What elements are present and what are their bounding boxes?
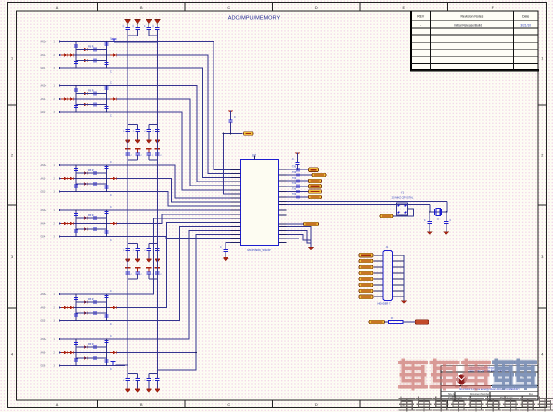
power symbol VDD top bank xyxy=(146,20,152,28)
pin left 9 xyxy=(231,201,241,203)
connector pin row 1 xyxy=(374,254,383,256)
wire pin to net label xyxy=(287,174,313,176)
svg-text:Document Number: Document Number xyxy=(470,393,490,396)
connector pin row 6 xyxy=(374,284,383,286)
wire row 3 xyxy=(61,191,125,193)
capacitor on left rail top xyxy=(74,89,78,91)
resistor R series xyxy=(81,59,87,62)
port arrow AN4+ xyxy=(59,209,62,211)
bracket wire xyxy=(149,243,158,245)
wire to cap xyxy=(429,212,431,222)
wire g4 row3 to pin xyxy=(125,237,231,239)
wire xyxy=(385,321,389,323)
wire vertical left rail xyxy=(75,339,77,366)
svg-text:GD6: GD6 xyxy=(41,366,46,368)
capacitor C bypass xyxy=(127,125,129,130)
power symbol VDD top bank xyxy=(154,20,160,28)
capacitor C bypass xyxy=(148,244,150,249)
pin right 7 xyxy=(279,201,287,203)
power symbol xyxy=(135,268,141,273)
diode D2 left on middle row xyxy=(67,351,73,354)
svg-text:TX0: TX0 xyxy=(292,194,297,196)
wire xyxy=(403,321,415,323)
resistor R series xyxy=(81,227,87,230)
bracket wire bottom xyxy=(128,159,138,161)
pin right 11 xyxy=(279,223,287,225)
watermark char small 2 xyxy=(416,397,432,411)
capacitor on right rail bottom xyxy=(104,315,108,317)
ground symbol xyxy=(135,381,140,393)
svg-text:C: C xyxy=(110,239,112,242)
junction dots xyxy=(75,338,77,340)
diode D left on middle row xyxy=(61,97,67,100)
capacitor lead xyxy=(156,30,158,36)
ground symbol xyxy=(147,132,152,144)
wire xtal left node xyxy=(429,205,431,212)
svg-text:GD5: GD5 xyxy=(41,321,46,323)
wire VDD branch down to pin xyxy=(224,134,231,194)
ground symbol osc xyxy=(443,224,449,235)
diode D left on middle row xyxy=(61,351,67,354)
svg-text:GD1: GD1 xyxy=(41,68,46,70)
wire sub-row xyxy=(76,228,107,230)
oscillator body xyxy=(397,203,408,215)
svg-text:Y1: Y1 xyxy=(401,191,405,195)
pin right 16 xyxy=(279,242,287,244)
capacitor lead xyxy=(127,30,129,36)
power symbol VDD top bank xyxy=(125,20,131,28)
watermark char small 1 xyxy=(399,397,415,411)
svg-text:AN4-: AN4- xyxy=(41,223,46,226)
svg-text:R: R xyxy=(391,317,393,320)
capacitor on right rail bottom xyxy=(104,186,108,188)
pin left 13 xyxy=(231,217,241,219)
port arrow GD5 xyxy=(59,319,62,321)
watermark char small 3 xyxy=(434,397,450,411)
port arrow AN6+ xyxy=(59,338,62,340)
net label J1 row xyxy=(359,289,373,293)
capacitor on right rail top xyxy=(104,167,108,169)
wire vertical right rail xyxy=(106,210,108,237)
capacitor C series xyxy=(91,227,99,231)
resistor R series xyxy=(81,92,87,95)
ground symbol IC right xyxy=(308,247,314,250)
svg-text:D: D xyxy=(315,403,318,407)
port arrow AN3- xyxy=(59,177,62,179)
svg-text:C: C xyxy=(110,71,112,74)
wire g4 row2 to pin xyxy=(125,214,231,223)
wire sub-row xyxy=(76,93,107,95)
svg-text:C: C xyxy=(227,6,230,10)
svg-text:3: 3 xyxy=(541,255,543,259)
ground symbol xyxy=(125,381,130,393)
power symbol AVDD at IC top xyxy=(295,153,301,163)
svg-text:B: B xyxy=(140,6,143,10)
svg-text:AN3+: AN3+ xyxy=(41,164,47,167)
ground symbol xyxy=(155,132,160,144)
watermark char red 2 xyxy=(431,360,458,390)
capacitor C bypass xyxy=(148,374,150,379)
capacitor C3 xyxy=(135,28,139,30)
filter group 1 xyxy=(41,38,126,74)
wire pin to net label xyxy=(287,196,309,198)
wire row 1 xyxy=(61,338,125,340)
port arrow AN6- xyxy=(59,351,62,353)
svg-text:TX0: TX0 xyxy=(292,183,297,185)
pin left 2 xyxy=(231,173,241,175)
svg-text:GD4: GD4 xyxy=(41,237,46,239)
wire sub-row xyxy=(76,312,107,314)
wire xtal horizontal xyxy=(430,211,446,213)
wire bus top fan 9 xyxy=(125,192,231,207)
bus entry mark xyxy=(297,168,299,171)
bus entry mark xyxy=(297,190,299,193)
net label J1 row xyxy=(359,253,373,257)
junction dots xyxy=(75,85,77,87)
pin right 8 xyxy=(279,204,287,206)
ground symbol xyxy=(135,251,140,263)
diode D2 left on middle row xyxy=(67,97,73,100)
bus entry mark xyxy=(297,173,299,176)
svg-text:AN2-: AN2- xyxy=(41,98,46,101)
wire bus top fan 2 xyxy=(125,55,231,174)
pin right 10 xyxy=(279,214,287,216)
watermark char small 4 xyxy=(451,397,467,411)
svg-text:TX0: TX0 xyxy=(292,189,297,191)
junction dots xyxy=(75,41,77,43)
capacitor C series xyxy=(91,92,99,96)
pin right 12 xyxy=(279,226,287,228)
watermark char small 7 xyxy=(503,397,519,411)
svg-text:C: C xyxy=(110,82,112,85)
capacitor C near IC xyxy=(228,120,232,122)
capacitor on right rail bottom xyxy=(104,360,108,362)
svg-text:E: E xyxy=(402,403,405,407)
port arrow AN5+ xyxy=(59,293,62,295)
svg-text:1: 1 xyxy=(11,57,13,61)
wire vertical right rail xyxy=(106,42,108,69)
bracket wire bottom xyxy=(149,278,158,280)
wire sub-row xyxy=(76,301,107,303)
capacitor on right rail top xyxy=(104,87,108,89)
port arrow AN2+ xyxy=(59,84,62,86)
ground symbol xyxy=(147,251,152,263)
capacitor C series xyxy=(91,103,99,107)
net label xyxy=(309,168,319,172)
svg-text:4: 4 xyxy=(11,353,13,357)
junction xyxy=(230,133,232,135)
svg-text:A: A xyxy=(56,403,59,407)
pin right 13 xyxy=(279,230,287,232)
wire xtal right node xyxy=(445,202,448,213)
capacitor on right rail top xyxy=(104,43,108,45)
diode D2 left on middle row xyxy=(67,306,73,309)
wire row 3 xyxy=(61,67,125,69)
pin left 7 xyxy=(231,193,241,195)
capacitor on right rail bottom xyxy=(104,231,108,233)
bus entry mark xyxy=(297,179,299,182)
capacitor C bypass xyxy=(156,374,158,379)
capacitor C at IC bottom left pin xyxy=(220,243,231,252)
net label DNC xyxy=(380,214,393,218)
wire AGND label stub xyxy=(116,364,128,366)
capacitor C bypass xyxy=(156,244,158,249)
bracket wire xyxy=(128,243,138,245)
pin left 10 xyxy=(231,205,241,207)
wire sub-row xyxy=(76,357,107,359)
diode D right on middle row xyxy=(110,351,116,354)
resistor R series xyxy=(81,300,87,303)
power symbol VDD near IC xyxy=(228,111,234,121)
wire row 1 xyxy=(61,293,125,295)
border row tick xyxy=(8,204,17,206)
wire AVDD rail vertical xyxy=(156,42,158,376)
power symbol xyxy=(135,149,141,154)
ground symbol xyxy=(155,251,160,263)
watermark char small 6 xyxy=(485,397,501,411)
pin right 6 xyxy=(279,196,287,198)
svg-text:FB R: FB R xyxy=(88,298,94,301)
svg-text:C: C xyxy=(110,290,112,293)
capacitor C series xyxy=(91,345,99,349)
filter group 5 xyxy=(41,290,126,326)
svg-text:AN6-: AN6- xyxy=(41,352,46,355)
pin right 3 xyxy=(279,180,287,182)
wire to cap xyxy=(445,212,447,222)
pin right 1 xyxy=(279,169,287,171)
port arrow GD6 xyxy=(59,364,62,366)
junction dots xyxy=(75,293,77,295)
wire pin to net label xyxy=(287,185,309,187)
port arrow GD1 xyxy=(59,67,62,69)
svg-text:FB R: FB R xyxy=(88,169,94,172)
svg-text:C: C xyxy=(110,161,112,164)
svg-text:AN5+: AN5+ xyxy=(41,293,47,296)
wire sub-row xyxy=(76,104,107,106)
resistor R series xyxy=(81,103,87,106)
capacitor C bypass2 xyxy=(126,153,130,155)
svg-text:A: A xyxy=(56,6,59,10)
svg-text:TX0: TX0 xyxy=(292,167,297,169)
filter group 4 xyxy=(41,206,126,242)
connector J1 xyxy=(359,245,407,306)
wire right pin to gnd 3 xyxy=(287,235,312,240)
svg-text:Initial Release/Build: Initial Release/Build xyxy=(454,23,482,27)
capacitor C bypass2 xyxy=(147,153,151,155)
diode D left on middle row xyxy=(61,53,67,56)
capacitor C bypass xyxy=(137,244,139,249)
wire cap to pin xyxy=(297,165,299,170)
resistor R9 xyxy=(389,321,404,324)
pin left 6 xyxy=(231,189,241,191)
pin right 14 xyxy=(279,234,287,236)
svg-text:AN5-: AN5- xyxy=(41,307,46,310)
pin right 2 xyxy=(279,174,287,176)
ground symbol osc xyxy=(427,224,433,235)
wire vertical right rail xyxy=(106,165,108,192)
filter group 6 xyxy=(41,335,126,371)
bracket wire xyxy=(128,373,138,375)
border column tick xyxy=(97,3,99,12)
wire OSC2 long xyxy=(287,204,430,206)
svg-text:C: C xyxy=(234,116,236,119)
connector pin row 3 xyxy=(374,266,383,268)
bypass capacitor cluster C xyxy=(123,374,160,393)
power label 3.3V xyxy=(112,39,117,42)
resistor R series xyxy=(81,356,87,359)
pin left 8 xyxy=(231,197,241,199)
wire row 2 xyxy=(61,307,125,309)
capacitor C5 xyxy=(155,28,159,30)
resistor R series xyxy=(81,345,87,348)
capacitor on left rail bottom xyxy=(74,185,78,187)
bracket wire xyxy=(149,373,158,375)
op-amp U2 MCU body xyxy=(241,160,279,246)
svg-text:MCP3909_SSOP: MCP3909_SSOP xyxy=(247,248,270,252)
watermark char small 9 xyxy=(537,397,553,411)
connector pin row 2 xyxy=(374,260,383,262)
junction on fan wire xyxy=(223,133,225,135)
wire vertical left rail xyxy=(75,294,77,321)
wire AGND return lower xyxy=(157,353,196,371)
border column tick xyxy=(359,3,361,12)
connector pin row 5 xyxy=(374,278,383,280)
wire row 3 xyxy=(61,320,125,322)
capacitor on right rail bottom xyxy=(104,107,108,109)
svg-text:3: 3 xyxy=(11,255,13,259)
resistor R series xyxy=(81,182,87,185)
resistor R series row xyxy=(369,317,429,324)
filter group 3 xyxy=(41,161,126,197)
svg-text:FB R: FB R xyxy=(88,343,94,346)
pin left 12 xyxy=(231,213,241,215)
diode D right on middle row xyxy=(110,177,116,180)
diode D2 left on middle row xyxy=(67,53,73,56)
capacitor C bypass xyxy=(137,125,139,130)
port arrow GD4 xyxy=(59,235,62,237)
capacitor on right rail top xyxy=(104,341,108,343)
power symbol xyxy=(146,149,152,154)
capacitor C series xyxy=(91,300,99,304)
capacitor C series xyxy=(91,311,99,315)
svg-text:D: D xyxy=(315,6,318,10)
port arrow AN4- xyxy=(59,222,62,224)
wire DNC loop xyxy=(393,209,414,216)
wire row 1 xyxy=(61,164,125,166)
ground symbol xyxy=(135,132,140,144)
wire bus bottom fan 3 xyxy=(125,226,231,320)
svg-text:-: - xyxy=(420,23,421,27)
svg-text:C: C xyxy=(292,158,294,161)
pin left 19 xyxy=(231,242,241,244)
svg-text:C: C xyxy=(110,368,112,371)
bracket wire bottom xyxy=(149,159,158,161)
svg-text:Revision Notes: Revision Notes xyxy=(460,15,483,19)
wire vertical left rail xyxy=(75,210,77,237)
capacitor on left rail top xyxy=(74,45,78,47)
wire bus bottom fan 2 xyxy=(125,222,231,307)
power symbol xyxy=(155,268,161,273)
net label xyxy=(312,173,326,177)
wire sub-row xyxy=(76,183,107,185)
svg-text:TX0: TX0 xyxy=(292,172,297,174)
ground symbol connector xyxy=(401,301,407,304)
net label xyxy=(309,190,322,194)
wire 3.3V rail vertical xyxy=(127,42,129,376)
capacitor on right rail bottom xyxy=(104,63,108,65)
wire sub-row xyxy=(76,60,107,62)
capacitor C bypass xyxy=(137,374,139,379)
border row tick xyxy=(8,104,17,106)
svg-text:FB R: FB R xyxy=(88,214,94,217)
capacitor C bypass xyxy=(127,244,129,249)
power symbol VDD top bank xyxy=(135,20,141,28)
wire top rail xyxy=(114,41,157,43)
wire row 2 xyxy=(61,352,125,354)
bus entry mark xyxy=(297,185,299,188)
capacitor C2 xyxy=(126,28,130,30)
wire cap to junction xyxy=(230,122,232,134)
diode D right on middle row xyxy=(110,306,116,309)
pin right 5 xyxy=(279,191,287,193)
oscillator Y1 sub-circuit xyxy=(392,191,414,216)
pin left 1 xyxy=(231,169,241,171)
wire bus top fan 5 xyxy=(125,99,231,186)
connector pin row 7 xyxy=(374,290,383,292)
filter group 2 xyxy=(41,82,126,118)
wire row 3 xyxy=(61,236,125,238)
svg-text:GD3: GD3 xyxy=(41,192,46,194)
title block xyxy=(441,366,538,400)
wire bus top fan 7 xyxy=(125,165,231,198)
pin left 15 xyxy=(231,225,241,227)
svg-text:AN6+: AN6+ xyxy=(41,338,47,341)
wire pin to net label xyxy=(287,180,309,182)
capacitor C bypass2 xyxy=(135,272,139,274)
wire row 2 xyxy=(61,54,125,56)
connector pin row 4 xyxy=(374,272,383,274)
capacitor C series xyxy=(91,182,99,186)
capacitor C series xyxy=(91,48,99,52)
capacitor C bypass2 xyxy=(147,272,151,274)
capacitor on left rail top xyxy=(74,298,78,300)
wire right pin stub xyxy=(287,238,300,240)
pin right 15 xyxy=(279,238,287,240)
wire OSC1 long xyxy=(287,201,448,203)
capacitor C4 xyxy=(147,28,151,30)
top decoupling capacitor bank xyxy=(112,20,161,43)
pin left 14 xyxy=(231,221,241,223)
bracket wire bottom xyxy=(128,278,138,280)
watermark char red 3 xyxy=(463,360,490,390)
pin left 17 xyxy=(231,234,241,236)
resistor R series xyxy=(81,216,87,219)
ground symbol xyxy=(155,381,160,393)
wire bus top fan 8 xyxy=(125,179,231,203)
capacitor C bypass2 xyxy=(155,272,159,274)
wire vertical left rail xyxy=(75,42,77,69)
power symbol xyxy=(125,149,131,154)
wire pin to net label xyxy=(287,169,309,171)
capacitor C bypass2 xyxy=(126,272,130,274)
Microchip logo xyxy=(455,375,468,389)
wire row 2 xyxy=(61,223,125,225)
capacitor C series xyxy=(91,356,99,360)
svg-text:C: C xyxy=(110,206,112,209)
resistor R series xyxy=(81,171,87,174)
wire row 2 xyxy=(61,178,125,180)
bracket wire pair 2 xyxy=(149,35,158,37)
